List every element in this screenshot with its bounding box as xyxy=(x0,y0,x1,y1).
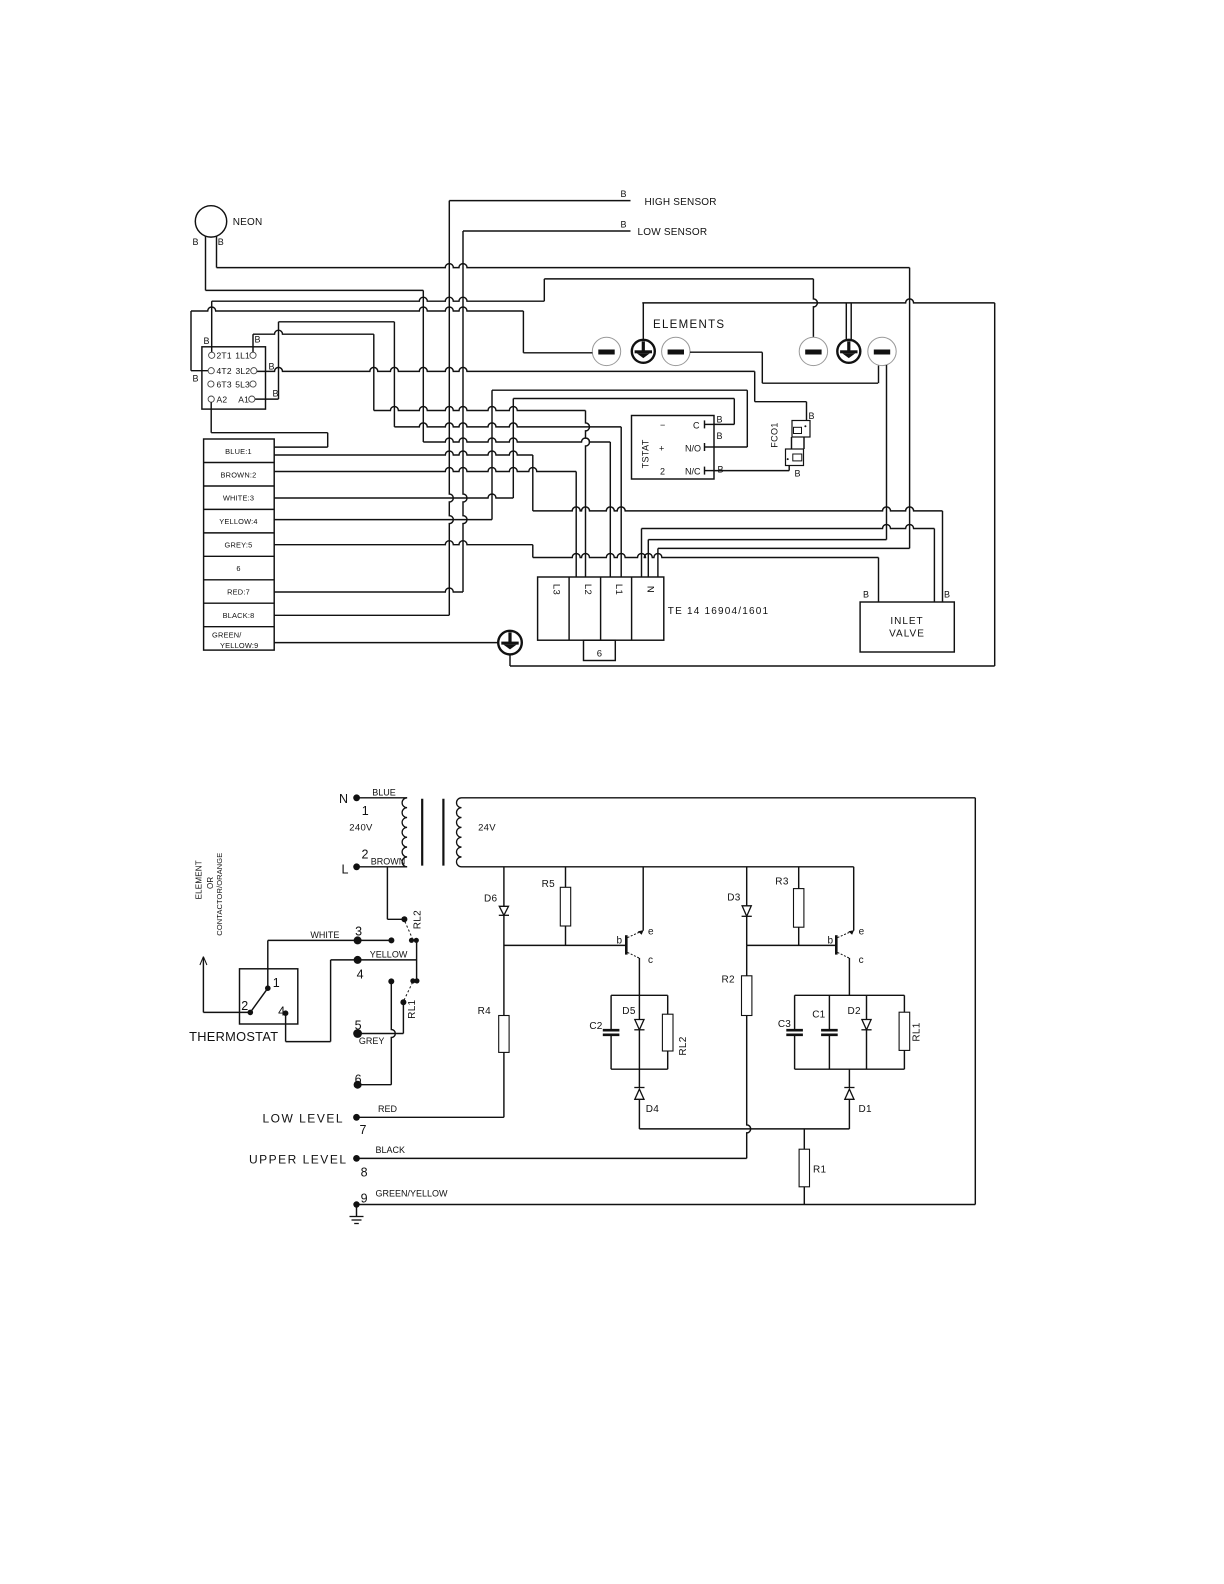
svg-text:CONTACTOR/ORANGE: CONTACTOR/ORANGE xyxy=(215,853,224,936)
label VALVE xyxy=(889,629,925,640)
svg-text:GREEN/YELLOW: GREEN/YELLOW xyxy=(376,1189,449,1199)
diode D5 xyxy=(622,1006,644,1030)
label GREY:5 xyxy=(225,541,253,550)
element ground G2 xyxy=(632,340,655,363)
terminal 6 box xyxy=(584,640,616,660)
wire thermostat1 riser xyxy=(267,940,269,988)
label 2 xyxy=(660,467,665,477)
color block divider xyxy=(204,462,275,464)
wire D5 branch xyxy=(638,995,640,1069)
wire neon right drop xyxy=(909,268,911,549)
svg-text:B: B xyxy=(795,469,801,479)
label RED wire xyxy=(378,1104,398,1114)
svg-text:R5: R5 xyxy=(542,879,556,890)
svg-text:RED: RED xyxy=(378,1104,398,1114)
wire D4 branch xyxy=(638,1069,640,1129)
transformer core xyxy=(422,799,443,866)
svg-text:ELEMENTS: ELEMENTS xyxy=(653,319,725,331)
svg-text:RL2: RL2 xyxy=(678,1036,689,1055)
svg-text:C: C xyxy=(693,421,700,431)
svg-text:8: 8 xyxy=(361,1166,368,1180)
svg-text:ELEMENT: ELEMENT xyxy=(194,860,203,899)
svg-text:NEON: NEON xyxy=(233,217,263,228)
svg-text:OR: OR xyxy=(206,877,215,889)
wire element1 feed riser xyxy=(522,311,524,353)
wire inlet right drop xyxy=(942,511,944,602)
wire D2 branch xyxy=(866,995,868,1069)
label ELEMENT rotated xyxy=(194,860,203,899)
wire D4 D1 link xyxy=(639,1128,849,1130)
wire R3 bottom xyxy=(798,927,800,945)
label B 1L1 xyxy=(255,335,261,345)
wire A1 bus upper xyxy=(279,321,395,323)
relay contact RL2 xyxy=(388,910,423,944)
label BLUE:1 xyxy=(225,447,252,456)
resistor R4 xyxy=(478,1006,510,1052)
svg-text:BROWN: BROWN xyxy=(371,857,406,867)
svg-text:7: 7 xyxy=(360,1123,367,1137)
color block divider xyxy=(204,602,275,604)
wire right frame bottom xyxy=(974,798,976,1205)
svg-text:B: B xyxy=(255,335,261,345)
svg-text:LOW SENSOR: LOW SENSOR xyxy=(638,227,708,238)
svg-text:6: 6 xyxy=(597,649,602,660)
wire green-yellow bus xyxy=(274,642,498,644)
wire Q2 emitter xyxy=(853,867,855,931)
terminal 4 dot xyxy=(354,956,364,981)
svg-text:GREY: GREY xyxy=(359,1036,385,1046)
wire 4T2 bus xyxy=(191,307,523,311)
wire 6 line xyxy=(358,1084,392,1086)
element E6 xyxy=(868,337,896,365)
wire upper level line xyxy=(357,1157,747,1159)
resistor R1 xyxy=(799,1149,826,1187)
svg-text:THERMOSTAT: THERMOSTAT xyxy=(189,1029,278,1044)
wire N/O bus xyxy=(492,389,747,391)
label L1 xyxy=(613,584,624,595)
label BROWN:2 xyxy=(221,470,257,479)
wire high sensor xyxy=(449,200,630,202)
wire black bus xyxy=(274,614,449,616)
wire low level line xyxy=(357,1116,504,1118)
relay RL2 group frame xyxy=(611,995,668,1069)
contactor terminal xyxy=(250,381,256,387)
wire neon right lead xyxy=(216,236,218,267)
svg-text:UPPER LEVEL: UPPER LEVEL xyxy=(249,1153,348,1167)
wire grey bus xyxy=(274,541,533,545)
wire A2 jog top xyxy=(211,432,328,434)
wire blue jog xyxy=(532,455,534,511)
svg-text:4: 4 xyxy=(357,967,364,981)
thermostat contact 1 xyxy=(265,976,280,991)
capacitor C3 xyxy=(778,1019,803,1035)
wire R3 top xyxy=(798,867,800,889)
color block divider xyxy=(204,555,275,557)
wire 2T1 riser xyxy=(211,301,213,352)
wire 4T2 stub xyxy=(191,370,208,372)
svg-text:240V: 240V xyxy=(349,823,373,834)
wire orange riser arrow xyxy=(200,957,207,1013)
wire TE N link xyxy=(642,525,935,529)
svg-text:B: B xyxy=(944,590,950,600)
label B FCO top xyxy=(809,411,815,421)
wire inlet mid drop xyxy=(933,529,935,603)
label 6 xyxy=(236,564,240,573)
svg-text:YELLOW:4: YELLOW:4 xyxy=(219,517,257,526)
svg-text:c: c xyxy=(859,955,864,966)
wire right frame xyxy=(994,303,996,666)
svg-text:D5: D5 xyxy=(622,1006,636,1017)
wire tstat C xyxy=(714,423,734,425)
wire thermostat4 drop xyxy=(285,1013,287,1041)
wire neon left horizontal xyxy=(206,289,424,291)
wire low sensor xyxy=(463,230,631,232)
contactor terminal xyxy=(208,381,214,387)
wire high sensor drop xyxy=(449,201,453,616)
wire green yellow line xyxy=(357,1204,976,1206)
wire TE N link 2 xyxy=(648,539,886,541)
svg-text:R2: R2 xyxy=(722,975,736,986)
svg-text:B: B xyxy=(193,237,199,247)
tstat terminal N/C tick xyxy=(705,467,715,475)
wire D1 branch xyxy=(848,1069,850,1129)
wire L1 feed lower xyxy=(423,438,610,442)
label HIGH SENSOR xyxy=(645,197,717,208)
svg-text:1L1: 1L1 xyxy=(235,351,250,361)
svg-text:e: e xyxy=(859,927,865,938)
wire A1 riser xyxy=(278,322,280,399)
wire Q2 collector xyxy=(848,958,850,995)
label CONTACTOR/ORANGE rotated xyxy=(215,853,224,936)
label N xyxy=(645,586,656,593)
label BLACK:8 xyxy=(223,611,255,620)
contactor terminal xyxy=(208,368,214,374)
label 24V xyxy=(478,823,496,834)
svg-text:BLUE:1: BLUE:1 xyxy=(225,447,252,456)
wire low sensor drop xyxy=(463,231,467,592)
wire element6 drop xyxy=(886,365,888,540)
label B inlet left xyxy=(863,590,869,600)
contactor terminal xyxy=(209,352,215,358)
svg-text:6T3: 6T3 xyxy=(217,379,232,389)
thermostat contact 2 xyxy=(241,999,253,1015)
wire FCO top stub xyxy=(806,402,808,421)
diode D6 xyxy=(484,894,509,916)
label B tstat C xyxy=(717,415,723,425)
svg-text:3: 3 xyxy=(355,925,362,939)
color block divider xyxy=(204,485,275,487)
element E3 xyxy=(662,337,690,365)
svg-text:L: L xyxy=(342,862,349,876)
svg-text:R1: R1 xyxy=(813,1165,827,1176)
svg-text:N: N xyxy=(339,792,348,806)
terminal 6 dot xyxy=(354,1072,362,1088)
thermostat contact 4 xyxy=(278,1004,288,1018)
svg-text:D3: D3 xyxy=(727,892,741,903)
tstat terminal C tick xyxy=(705,420,715,428)
contactor terminal xyxy=(208,396,214,402)
wire yellow line xyxy=(331,959,417,961)
svg-text:GREY:5: GREY:5 xyxy=(225,541,253,550)
svg-text:b: b xyxy=(616,936,622,947)
wire A2 jog bottom xyxy=(274,446,328,448)
wire L2 feed upper xyxy=(374,407,586,411)
svg-text:N: N xyxy=(645,586,656,593)
wire element3 out xyxy=(690,351,762,353)
wire grey riser xyxy=(402,1002,404,1033)
wire color block xyxy=(204,439,275,650)
contactor terminal xyxy=(249,396,255,402)
wire L1 feed upper xyxy=(394,423,621,427)
svg-text:C3: C3 xyxy=(778,1019,791,1030)
wire tstat N/O xyxy=(714,446,747,448)
wire 1L1 riser xyxy=(252,334,254,352)
resistor R3 xyxy=(775,877,804,928)
label 2T1 xyxy=(217,351,232,361)
color block divider xyxy=(204,579,275,581)
label A2 xyxy=(217,394,228,404)
thermostat box xyxy=(240,969,298,1024)
terminal 9 dot xyxy=(353,1191,367,1207)
svg-text:2: 2 xyxy=(241,999,248,1013)
svg-text:4T2: 4T2 xyxy=(217,366,232,376)
svg-text:24V: 24V xyxy=(478,823,496,834)
relay contact RL1 xyxy=(388,978,419,1019)
svg-text:TSTAT: TSTAT xyxy=(641,439,651,468)
resistor R2 xyxy=(722,975,752,1016)
svg-text:c: c xyxy=(648,955,653,966)
svg-text:L1: L1 xyxy=(613,584,624,595)
svg-text:6: 6 xyxy=(236,564,240,573)
label N/O xyxy=(685,444,701,454)
wire inlet left drop xyxy=(878,558,880,603)
wire A2 jog drop xyxy=(327,433,329,447)
label B neon left xyxy=(193,237,199,247)
diode D2 xyxy=(848,1006,872,1030)
wire contact6 drop xyxy=(391,981,395,1084)
svg-text:RL1: RL1 xyxy=(407,999,418,1018)
ground symbol 9 xyxy=(350,1205,364,1224)
svg-text:YELLOW: YELLOW xyxy=(370,949,408,959)
svg-text:B: B xyxy=(809,411,815,421)
terminal 8 dot xyxy=(353,1155,368,1180)
label GREY wire xyxy=(359,1036,385,1046)
wire TE L2 stub right xyxy=(586,411,590,578)
label TSTAT xyxy=(641,439,651,468)
wire L to transformer xyxy=(357,866,408,868)
wire white line xyxy=(268,939,392,941)
wire FCO link xyxy=(755,401,807,403)
color block divider xyxy=(204,626,275,628)
svg-text:5: 5 xyxy=(355,1018,362,1032)
wire 3L2 bus xyxy=(257,367,755,371)
wire ground bus top xyxy=(642,299,994,303)
wire Q2 base line xyxy=(747,944,835,946)
tstat terminal N/O tick xyxy=(705,443,715,451)
wire D3 branch xyxy=(746,867,748,946)
wire R2 bottom xyxy=(747,1016,751,1159)
wire element4 drop xyxy=(813,279,817,338)
svg-text:3L2: 3L2 xyxy=(236,366,251,376)
svg-text:N/C: N/C xyxy=(685,467,701,477)
label 4T2 xyxy=(217,366,232,376)
wire 2T1 riser horizontal xyxy=(212,297,545,301)
label B A1 xyxy=(273,389,279,399)
wire red bus xyxy=(274,588,463,592)
wire thermostat2 left xyxy=(203,1011,250,1013)
label RED:7 xyxy=(227,588,250,597)
wire TE N stub 3 xyxy=(657,548,659,577)
wire ground bottom xyxy=(510,665,995,667)
svg-text:BLACK:8: BLACK:8 xyxy=(223,611,255,620)
label B 2T1 xyxy=(204,336,210,346)
wire 1L1 bus drop xyxy=(373,334,375,410)
transformer T1 primary xyxy=(402,798,407,867)
svg-text:TE 14 16904/1601: TE 14 16904/1601 xyxy=(668,606,770,617)
capacitor C1 xyxy=(812,1010,837,1035)
transformer T1 secondary xyxy=(456,798,461,867)
ground symbol main xyxy=(498,631,522,655)
wire N to transformer xyxy=(357,797,408,799)
svg-text:B: B xyxy=(717,415,723,425)
svg-text:e: e xyxy=(648,927,654,938)
svg-text:B: B xyxy=(863,590,869,600)
svg-text:A2: A2 xyxy=(217,394,228,404)
relay coil RL1 xyxy=(899,1012,922,1050)
wire tstat N/O riser xyxy=(746,390,748,447)
color block divider xyxy=(204,532,275,534)
fuse FCO1 xyxy=(770,421,811,466)
label B 4T2 xyxy=(193,374,199,384)
label BLACK wire xyxy=(376,1145,406,1155)
wire FCO bottom stub xyxy=(788,466,790,471)
label TE 14 16904/1601 xyxy=(668,606,770,617)
svg-text:b: b xyxy=(827,936,833,947)
svg-text:B: B xyxy=(204,336,210,346)
element E4 xyxy=(799,337,827,365)
svg-text:D4: D4 xyxy=(646,1104,660,1115)
wire Q1 base line xyxy=(504,944,625,946)
svg-text:BROWN:2: BROWN:2 xyxy=(221,470,257,479)
label B 3L2 xyxy=(269,362,275,372)
wire element4 feed upper xyxy=(544,278,813,280)
svg-text:VALVE: VALVE xyxy=(889,629,925,640)
diode D1 xyxy=(844,1088,872,1116)
wire L drop to RL2 xyxy=(386,867,388,920)
svg-text:RL1: RL1 xyxy=(912,1022,923,1041)
label GREEN/YELLOW wire xyxy=(376,1189,449,1199)
svg-text:1: 1 xyxy=(273,976,280,990)
wire 24V top bus xyxy=(462,797,976,799)
contactor terminal xyxy=(251,368,257,374)
label B inlet right xyxy=(944,590,950,600)
wire element6 stub up xyxy=(878,366,880,384)
svg-text:B: B xyxy=(218,237,224,247)
wire R5 bottom xyxy=(565,926,567,945)
wire yellow riser xyxy=(491,390,493,519)
label L3 xyxy=(550,584,561,595)
label N/C xyxy=(685,467,701,477)
terminal N dot xyxy=(339,792,369,818)
relay coil RL2 xyxy=(662,1014,689,1055)
label B neon right xyxy=(218,237,224,247)
svg-text:FCO1: FCO1 xyxy=(770,422,780,448)
wire neon left lead xyxy=(205,236,207,290)
label INLET xyxy=(890,616,923,627)
svg-text:YELLOW:9: YELLOW:9 xyxy=(220,641,258,650)
label LOW LEVEL xyxy=(262,1111,344,1125)
svg-text:RED:7: RED:7 xyxy=(227,588,250,597)
label B tstat N/O xyxy=(717,431,723,441)
terminal 5 dot xyxy=(353,1018,362,1038)
svg-text:L2: L2 xyxy=(582,584,593,595)
label B high sensor xyxy=(621,189,627,199)
wire neon left drop xyxy=(422,290,424,442)
terminal block TE xyxy=(538,577,664,640)
wire ground G5 stub left xyxy=(845,303,847,341)
label B tstat N/C xyxy=(718,465,724,475)
svg-text:B: B xyxy=(193,374,199,384)
element ground G5 xyxy=(837,340,860,363)
label 3L2 xyxy=(236,366,251,376)
svg-text:RL2: RL2 xyxy=(412,910,423,929)
svg-text:LOW LEVEL: LOW LEVEL xyxy=(262,1111,344,1125)
label WHITE wire xyxy=(310,930,339,940)
svg-text:5L3: 5L3 xyxy=(235,379,250,389)
wire 4T2 left riser xyxy=(190,311,192,371)
label 240V xyxy=(349,823,373,834)
label YELLOW:4 xyxy=(219,517,257,526)
terminal 7 dot xyxy=(353,1114,366,1137)
wire TE N stub 1 xyxy=(641,529,643,578)
label 6T3 xyxy=(217,379,232,389)
svg-text:BLACK: BLACK xyxy=(376,1145,406,1155)
wire TE N link 3 xyxy=(658,547,910,549)
svg-text:N/O: N/O xyxy=(685,444,701,454)
svg-text:2T1: 2T1 xyxy=(217,351,232,361)
svg-text:R3: R3 xyxy=(775,877,789,888)
wire yellow bus xyxy=(274,519,492,521)
label B low sensor xyxy=(621,220,627,230)
label ELEMENTS xyxy=(653,319,725,331)
svg-text:WHITE: WHITE xyxy=(310,930,339,940)
wire Q1 collector xyxy=(638,958,640,995)
wire grey line xyxy=(358,1033,404,1035)
diode D3 xyxy=(727,892,752,916)
relay RL1 group frame xyxy=(795,995,905,1069)
capacitor C2 xyxy=(589,1021,619,1035)
label B FCO bottom xyxy=(795,469,801,479)
label WHITE:3 xyxy=(223,494,254,503)
wire ground G5 stub right xyxy=(850,303,852,341)
wire TE L1 stub right xyxy=(620,427,622,577)
neon lamp xyxy=(195,206,262,237)
wire neon right to elements column xyxy=(217,264,910,268)
wire FCO link drop xyxy=(754,371,756,401)
svg-text:BLUE: BLUE xyxy=(372,787,396,797)
wire inlet feed left xyxy=(533,554,879,558)
label BROWN wire xyxy=(371,857,406,867)
svg-text:+: + xyxy=(659,444,664,454)
svg-text:D1: D1 xyxy=(859,1104,873,1115)
label 5L3 xyxy=(235,379,250,389)
wire element3 out drop xyxy=(761,352,763,383)
inlet valve box xyxy=(860,602,954,652)
svg-text:L3: L3 xyxy=(550,584,561,595)
wire R2 top xyxy=(746,945,748,975)
wire A1 stub xyxy=(255,398,279,400)
thermostat TSTAT box xyxy=(632,416,715,480)
